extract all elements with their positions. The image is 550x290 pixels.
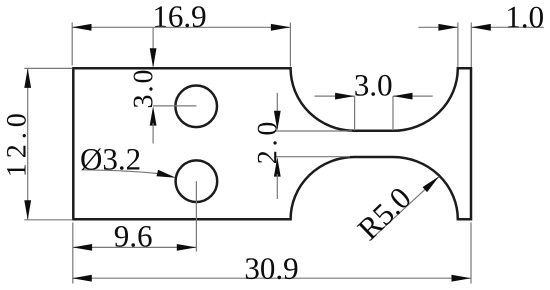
arrow 30.9 left xyxy=(72,275,92,282)
arrow 3.0 hole down xyxy=(150,48,157,68)
dimension 1.0 extension line left xyxy=(457,23,459,68)
arrow Ø3.2 xyxy=(157,170,176,178)
dimension 3.0 neck tail right xyxy=(393,95,433,97)
dimension 30.9 extension line right xyxy=(470,222,472,283)
text 2.0 xyxy=(258,123,277,163)
arrow 3.0 neck left xyxy=(335,93,355,100)
part outline xyxy=(73,68,471,219)
arrow 2.0 up xyxy=(274,157,281,177)
dimension 16.9 line xyxy=(72,26,290,28)
hole lower Ø3.2 xyxy=(176,160,218,202)
text Ø3.2 xyxy=(81,148,139,170)
arrow 1.0 left xyxy=(438,24,458,31)
dimension 3.0 neck extension left xyxy=(354,96,356,130)
text 3.0 neck xyxy=(355,75,391,96)
dimension 2.0 upper segment xyxy=(276,93,278,129)
hole upper center line xyxy=(153,105,196,107)
arrow 9.6 left xyxy=(73,244,93,251)
dimension 3.0 neck tail left xyxy=(315,95,355,97)
dimension 16.9 extension line left xyxy=(71,23,73,66)
arrow 16.9 right xyxy=(271,24,291,31)
text 16.9 xyxy=(155,6,205,27)
dimension 1.0 tail left xyxy=(418,26,458,28)
dimension 12.0 line xyxy=(27,68,29,219)
dimension 1.0 extension line right xyxy=(470,23,472,68)
arrow 3.0 neck right xyxy=(393,93,413,100)
arrow 30.9 right xyxy=(452,275,472,282)
arrow 1.0 right xyxy=(471,24,491,31)
dimension 12.0 extension line bottom xyxy=(24,219,72,221)
text 12.0 xyxy=(7,114,26,174)
label R5.0 leader xyxy=(369,176,439,241)
text 1.0 xyxy=(508,7,543,28)
dimension 2.0 lower tail xyxy=(276,174,278,199)
text R5.0 xyxy=(356,186,412,241)
dimension 3.0 neck extension right xyxy=(392,96,394,130)
arrow 12.0 top xyxy=(24,68,31,88)
dimension 3.0 hole lower tail xyxy=(152,123,154,144)
arrow 3.0 hole up xyxy=(150,106,157,126)
dimension 12.0 extension line top xyxy=(24,67,72,69)
hole upper Ø3.2 xyxy=(175,86,217,128)
dimension 30.9 line xyxy=(72,277,471,279)
dimension 1.0 tail right xyxy=(471,26,544,28)
text 30.9 xyxy=(246,258,298,279)
arrow 9.6 right xyxy=(177,244,197,251)
arrow 2.0 down xyxy=(274,111,281,131)
hole lower center line xyxy=(195,181,197,251)
dimension 16.9 extension line right xyxy=(289,23,291,67)
dimension 9.6 line xyxy=(73,246,197,248)
dimension 2.0 extension lower xyxy=(276,156,351,158)
arrow 16.9 left xyxy=(72,24,92,31)
label Ø3.2 leader xyxy=(83,170,158,174)
arrow 12.0 bottom xyxy=(24,200,31,220)
dimension 30.9 extension line left xyxy=(72,223,74,284)
dimension 2.0 extension upper xyxy=(276,130,353,132)
dimension 3.0 hole upper segment xyxy=(152,28,154,66)
text 9.6 xyxy=(115,226,152,247)
text 3.0 hole xyxy=(134,71,153,108)
arrow R5.0 xyxy=(423,176,440,192)
